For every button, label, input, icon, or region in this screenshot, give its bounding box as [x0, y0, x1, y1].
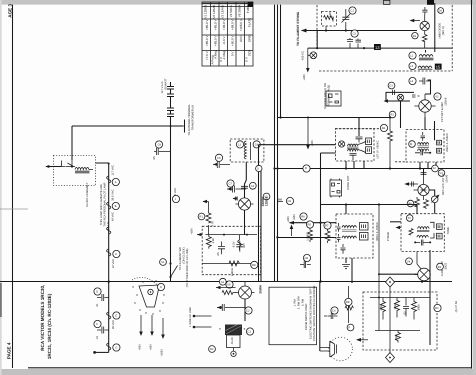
- svg-text:12: 12: [433, 167, 437, 170]
- code dot terminal box: [330, 180, 342, 196]
- svg-text:12AV6: 12AV6: [446, 174, 449, 182]
- svg-text:TERMINAL IN (B): TERMINAL IN (B): [328, 85, 331, 107]
- ref circle L1: [409, 52, 416, 59]
- bottom grey scan strip: [0, 369, 476, 375]
- ref circle on bus right: [345, 298, 352, 305]
- svg-text:R5: R5: [308, 224, 312, 227]
- node avc end: [389, 116, 391, 118]
- svg-text:+85V: +85V: [303, 74, 306, 81]
- AVC arrow stub: [307, 118, 309, 147]
- resistor R12 vertical: [206, 213, 211, 223]
- svg-text:L3: L3: [238, 144, 242, 147]
- AF line: [321, 204, 418, 206]
- dial drive bracket: [139, 285, 160, 307]
- ref circle C1A: [349, 7, 356, 14]
- arrow pin left: [216, 287, 236, 289]
- top feed vertical: [434, 3, 436, 52]
- resistor ext ant: [324, 16, 334, 20]
- node string start: [108, 163, 110, 165]
- table corner black square: [248, 2, 253, 7]
- svg-text:POSITION. SWITCH ROTATES CLOCK: POSITION. SWITCH ROTATES CLOCKWISE: [313, 285, 316, 341]
- T2 slug boxes: [437, 140, 442, 145]
- right page rule: [471, 0, 473, 369]
- heater V3: [107, 227, 111, 234]
- converter screen riser: [260, 169, 262, 282]
- filament feed wire: [302, 30, 418, 32]
- top open index tab: [384, 0, 390, 4]
- T3 pin wires: [346, 205, 352, 282]
- svg-text:35W4: 35W4: [259, 285, 263, 294]
- T1 tickler node: [339, 141, 345, 147]
- wire clock drop: [71, 126, 73, 160]
- T2 inner cap: [415, 150, 431, 155]
- grid loop wire: [386, 92, 414, 128]
- heater V1: [107, 176, 111, 183]
- svg-text:PAGE 4: PAGE 4: [6, 342, 11, 359]
- IF transformer T1 box: [336, 129, 375, 161]
- svg-text:.05: .05: [153, 156, 156, 160]
- feedback dashed box: [363, 292, 437, 350]
- svg-text:V5 35W4: V5 35W4: [238, 4, 242, 17]
- T1 bottom cap: [350, 153, 357, 160]
- resistor fb1: [381, 298, 386, 320]
- svg-text:A: A: [115, 181, 117, 184]
- T1 slug boxes: [366, 138, 372, 145]
- tube V5 35W4 rectifier: [239, 286, 252, 299]
- wire filament string top: [96, 163, 109, 352]
- node 379: [378, 297, 380, 299]
- svg-text:V1 12BE6: V1 12BE6: [204, 5, 208, 19]
- svg-text:1 MEG: 1 MEG: [307, 232, 310, 240]
- resistor 3.9K vertical: [206, 235, 211, 249]
- det diode load stub: [405, 182, 418, 187]
- svg-text:G: G: [115, 347, 117, 350]
- cap on bus pair: [277, 199, 283, 202]
- svg-text:TONE: TONE: [447, 227, 450, 235]
- ref circle C20: [246, 328, 253, 335]
- IF transformer T3 box: [336, 214, 373, 258]
- wire AC line down: [170, 97, 172, 109]
- T1 hook wires: [358, 142, 366, 153]
- svg-text:150K: 150K: [395, 334, 398, 341]
- long bus vertical 1: [274, 5, 276, 282]
- osc tap cap stub: [213, 161, 230, 168]
- voltage arrow 1: [140, 315, 142, 333]
- chassis ground ring: [231, 351, 236, 356]
- wire to ground: [233, 348, 235, 352]
- svg-text:+105.0 V: +105.0 V: [239, 18, 243, 31]
- svg-text:AGE 3: AGE 3: [7, 3, 12, 17]
- trimmer capacitor C1A: [342, 9, 349, 31]
- svg-text:C2: C2: [246, 310, 250, 313]
- node if feed: [276, 236, 278, 238]
- ref circle R4: [380, 124, 387, 131]
- tuner dashed boundary: [317, 5, 452, 71]
- ref circle R1: [412, 33, 418, 39]
- wire to coil: [66, 160, 75, 167]
- table row rules: [202, 7, 253, 51]
- ref circle C15: [286, 197, 293, 204]
- svg-text:390K: 390K: [418, 304, 421, 311]
- heater V2: [107, 202, 111, 209]
- svg-text:B: B: [115, 205, 117, 208]
- capacitor grid loop: [393, 90, 395, 95]
- svg-text:+85.0 V: +85.0 V: [205, 18, 209, 30]
- svg-text:.05: .05: [217, 252, 220, 256]
- svg-text:+85.0 V: +85.0 V: [214, 34, 218, 46]
- svg-text:47-1 B: 47-1 B: [107, 222, 110, 230]
- speaker dotted cone circle: [329, 337, 353, 361]
- svg-text:C3: C3: [389, 85, 393, 88]
- resistor RF vertical: [422, 35, 427, 49]
- grid cap V3: [421, 173, 427, 175]
- ref circle V2: [434, 93, 441, 100]
- oscillator coil L2: [418, 66, 432, 68]
- svg-text:C2: C2: [353, 33, 357, 36]
- svg-text:L1: L1: [410, 55, 414, 58]
- svg-text:3.9K: 3.9K: [212, 238, 215, 244]
- long bus vertical 3: [280, 5, 282, 118]
- left section: power entry, clock, filament string: [45, 78, 194, 357]
- T1 core lines: [347, 147, 359, 148]
- ref circle C9: [155, 141, 162, 148]
- IF transformer T2 box: [406, 130, 444, 162]
- svg-text:FROM SWITCH END:: FROM SWITCH END:: [305, 303, 308, 330]
- svg-text:+85.0 V: +85.0 V: [214, 18, 218, 30]
- T2 core lines: [418, 146, 430, 147]
- resistor fb4: [396, 331, 401, 343]
- svg-text:+85V: +85V: [311, 140, 314, 147]
- svg-text:60 WATT: 60 WATT: [165, 78, 168, 90]
- svg-text:36.5 VAC: 36.5 VAC: [112, 189, 115, 200]
- ref circle C5: [215, 154, 222, 161]
- wire vol to tubes: [417, 190, 435, 214]
- voltage arrow 2: [151, 315, 153, 333]
- resistor fb3: [412, 298, 417, 320]
- ref circle C7: [227, 180, 234, 187]
- AC side terminal stubs: [195, 316, 212, 327]
- T4 core lines: [417, 230, 429, 231]
- svg-text:R7: R7: [325, 225, 329, 228]
- ground T3: [342, 265, 350, 269]
- svg-text:R: R: [305, 167, 307, 170]
- svg-text:V4: V4: [407, 261, 411, 264]
- ref circle T4: [406, 215, 413, 222]
- svg-text:R8: R8: [252, 264, 256, 267]
- svg-text:3. RM: 3. RM: [302, 298, 305, 306]
- ref circle G: [113, 344, 120, 351]
- svg-text:C7: C7: [229, 183, 233, 186]
- resistor R4 vertical: [388, 131, 393, 142]
- bus B- horizontal full: [0, 281, 452, 283]
- ref circle F: [94, 320, 101, 327]
- dark left-edge blotch: [0, 283, 2, 317]
- ref circle D: [94, 288, 101, 295]
- T3 core lines: [342, 230, 357, 232]
- left grey scan sliver: [0, 0, 2, 375]
- resistor 1meg vertical: [308, 228, 313, 242]
- svg-text:2700: 2700: [394, 303, 397, 310]
- node bus joints: [273, 167, 275, 169]
- svg-text:V2 12BA6: V2 12BA6: [212, 5, 216, 19]
- ref circle R8: [251, 261, 258, 268]
- wire string bottom hook: [96, 351, 109, 353]
- ref circle J: [172, 195, 179, 202]
- wire osc to tube: [245, 162, 247, 198]
- ref circle C34: [438, 8, 444, 14]
- wire right rail: [429, 250, 431, 345]
- ref circle C21: [245, 307, 252, 314]
- feedback vertical wire: [389, 287, 391, 353]
- wire ext ant drop: [326, 17, 333, 31]
- svg-text:L2: L2: [410, 65, 414, 68]
- svg-text:+85V: +85V: [150, 344, 153, 351]
- arrow fb to speaker: [357, 339, 368, 341]
- wire AC line vertical: [170, 126, 172, 282]
- wire det out: [290, 222, 337, 224]
- capacitor C-line1 stub: [97, 294, 109, 301]
- T3 secondary coil: [342, 236, 356, 238]
- svg-text:+85V: +85V: [191, 228, 194, 235]
- svg-text:S: S: [257, 168, 259, 171]
- inner top rail: [370, 297, 430, 299]
- svg-text:R1: R1: [199, 216, 203, 219]
- ext antenna dashed box: [322, 12, 337, 27]
- ref circle C10: [388, 82, 395, 89]
- inner rail top: [206, 234, 258, 236]
- diode 1N60 envelope: [420, 21, 429, 30]
- ref circle near switch: [160, 259, 167, 266]
- svg-text:E: E: [115, 315, 117, 318]
- cap stub +105: [217, 304, 245, 311]
- svg-text:T2: T2: [408, 217, 412, 220]
- heater V6: [107, 343, 111, 350]
- svg-text:TO FILAMENT STRING: TO FILAMENT STRING: [296, 11, 300, 46]
- oscillator coil L3: [244, 141, 246, 159]
- dropping resistor feed: [203, 202, 209, 235]
- tube V1 12BE6 converter: [238, 198, 250, 210]
- oscillator dashed box: [230, 139, 264, 162]
- ref circle on bus: [303, 165, 310, 172]
- svg-text:ANT: ANT: [329, 11, 332, 17]
- voice coil chain: [347, 286, 349, 323]
- svg-text:R1: R1: [413, 35, 417, 38]
- capacitor .047 vertical: [236, 241, 243, 252]
- IF unit dashed top: [335, 128, 380, 130]
- svg-text:THE RCA PERSONAL PILOT LAMP: THE RCA PERSONAL PILOT LAMP: [104, 182, 107, 226]
- wire tube to box: [244, 210, 246, 235]
- svg-text:.047: .047: [243, 243, 246, 249]
- T2 tuning caps: [421, 132, 426, 141]
- AGC node x: [397, 94, 403, 100]
- +85V arrow down: [307, 48, 309, 69]
- ref circle R14: [434, 304, 441, 311]
- speaker symbol: [330, 341, 337, 357]
- resistor 1 MEG horizontal: [229, 261, 240, 266]
- svg-text:C6: C6: [251, 185, 255, 188]
- clock switch contact: [61, 161, 74, 167]
- wire avc corner into T1: [358, 118, 360, 128]
- T1 plate feed cap: [358, 118, 360, 137]
- tube V3 12AV6 det: [418, 184, 429, 195]
- wire det feed: [423, 169, 425, 176]
- svg-text:40-40: 40-40: [231, 337, 234, 344]
- svg-text:30 VAC: 30 VAC: [112, 320, 115, 329]
- output transformer T4 dashed box: [401, 214, 444, 252]
- svg-text:1ST I.F. 455KC: 1ST I.F. 455KC: [377, 140, 380, 158]
- cap .0033 stub: [300, 261, 311, 268]
- switch S1 on-off: [169, 262, 171, 264]
- ref circle V3: [438, 170, 445, 177]
- capacitor C-line2 stub: [97, 327, 109, 334]
- AC interlock plug P1 lower: [167, 108, 174, 126]
- svg-text:2ND I.F. 455KC: 2ND I.F. 455KC: [446, 133, 449, 152]
- svg-text:(A) 47 63: (A) 47 63: [455, 301, 458, 313]
- table column rules: [211, 2, 245, 66]
- wire rect cathode down: [244, 299, 246, 321]
- capacitor .05 vertical: [218, 242, 225, 255]
- ref circle C6: [249, 182, 256, 189]
- dial pulley: [148, 289, 153, 294]
- svg-text:12BA6: 12BA6: [445, 97, 448, 106]
- svg-text:C8: C8: [305, 257, 309, 260]
- svg-text:V5: V5: [227, 284, 231, 287]
- wire plate step: [425, 80, 431, 94]
- svg-text:50C5: 50C5: [445, 262, 448, 269]
- ref circle L2: [409, 62, 416, 69]
- ref circle on bus S: [256, 165, 262, 171]
- svg-text:R3: R3: [435, 307, 439, 310]
- tone cap wire: [415, 240, 430, 246]
- gang link small coil: [419, 78, 430, 85]
- svg-text:2. RM SPK: 2. RM SPK: [298, 296, 301, 310]
- svg-text:S2: S2: [221, 281, 225, 284]
- svg-text:PLATE: PLATE: [248, 18, 252, 27]
- ref circle C4: [253, 141, 260, 148]
- capacitor line bypass stub: [154, 148, 171, 155]
- ref circle R12: [198, 213, 205, 220]
- ref circle R10: [306, 221, 313, 228]
- grid drive line: [379, 273, 418, 275]
- wire converter plate to T1: [259, 144, 336, 146]
- T4 step wires: [430, 222, 434, 238]
- svg-text:48 VAC: 48 VAC: [112, 212, 115, 221]
- ref circle C14: [303, 254, 310, 261]
- svg-text:CODE DOT: CODE DOT: [347, 175, 350, 190]
- ref circle A: [112, 178, 119, 185]
- svg-text:60 C: 60 C: [239, 35, 243, 42]
- wire 379 vertical: [378, 205, 380, 331]
- svg-text:117 VAC: 117 VAC: [112, 165, 115, 176]
- svg-text:R8: R8: [346, 301, 350, 304]
- ref circle L4: [409, 77, 416, 84]
- diode arrow stub: [411, 20, 421, 22]
- ref circle V1: [263, 193, 270, 200]
- svg-text:4.7K: 4.7K: [211, 221, 214, 227]
- svg-text:+: +: [244, 327, 246, 331]
- ref circle L3: [236, 141, 243, 148]
- ref circle H: [157, 283, 164, 290]
- dial cord speckle: [132, 280, 164, 314]
- socket view box: [326, 91, 341, 106]
- heater V4: [107, 249, 111, 256]
- wire right of switch box: [319, 282, 321, 352]
- right grey scan strip: [473, 0, 476, 375]
- T3 tuning caps: [337, 223, 341, 242]
- node bus dots: [351, 281, 353, 283]
- inner bottom rail: [375, 330, 420, 332]
- det load resistor b: [424, 199, 429, 209]
- svg-text:.01: .01: [96, 335, 99, 339]
- svg-text:R4: R4: [382, 127, 386, 130]
- node det wire: [319, 222, 321, 224]
- svg-text:1RC31, 1RC34 (Ch. RC-1202E): 1RC31, 1RC34 (Ch. RC-1202E): [47, 293, 52, 359]
- svg-text:.02: .02: [404, 311, 407, 315]
- T3 slug boxes: [360, 223, 369, 231]
- antenna coil L1: [419, 55, 433, 57]
- resistor 470 vertical: [325, 229, 330, 243]
- wire into box left: [390, 221, 401, 223]
- T2 secondary coil: [418, 149, 429, 151]
- ref circle near 50C5: [437, 263, 444, 270]
- bottom right: audio output, speaker: [320, 205, 458, 363]
- svg-text:C5: C5: [217, 157, 221, 160]
- svg-text:270000: 270000: [387, 232, 390, 242]
- svg-text:SCR: SCR: [248, 49, 252, 56]
- tube voltage table (rotated): [202, 2, 253, 66]
- svg-text:C4: C4: [332, 310, 336, 313]
- ref circle B: [112, 202, 119, 209]
- AC interlock plug P1 upper: [167, 82, 174, 97]
- inner rail bottom: [202, 262, 257, 264]
- grid cap stub: [227, 186, 246, 193]
- node AC junction: [170, 125, 172, 127]
- svg-text:+105V: +105V: [161, 349, 164, 357]
- right section: IF amp, detector, audio: [256, 80, 451, 283]
- osc test node: [310, 52, 317, 59]
- heater V5: [107, 312, 111, 319]
- arrowhead filament feed: [301, 29, 307, 33]
- svg-text:+38.0 V: +38.0 V: [222, 18, 226, 30]
- svg-text:+7.0 V: +7.0 V: [205, 50, 209, 60]
- gang trimmer cap: [422, 7, 427, 15]
- node bus crossing: [108, 281, 110, 283]
- wire AF takeoff: [321, 153, 336, 282]
- T1 primary coil: [348, 144, 358, 146]
- T3 primary coil: [342, 226, 356, 228]
- cap cluster on plate line: [347, 38, 361, 48]
- svg-text:TUBE: TUBE: [246, 5, 250, 13]
- ref circle R6: [407, 200, 414, 207]
- bus B+ horizontal: [275, 168, 472, 170]
- svg-text:+85V: +85V: [287, 216, 290, 223]
- svg-text:C9: C9: [288, 200, 292, 203]
- voltage arrow 3: [162, 318, 164, 336]
- svg-text:R9: R9: [301, 216, 305, 219]
- svg-text:C1: C1: [351, 10, 355, 13]
- svg-text:1 SIDE AC LINE: 1 SIDE AC LINE: [189, 307, 192, 327]
- svg-text:CLOCK ASSEMBLY: CLOCK ASSEMBLY: [86, 182, 89, 207]
- cap fb: [403, 298, 409, 317]
- ref circle R3: [389, 111, 396, 118]
- T4 primary coil: [418, 227, 430, 229]
- converter plate riser: [258, 145, 260, 282]
- svg-text:P: P: [348, 327, 350, 330]
- wire IF feed: [278, 237, 337, 239]
- svg-text:L4: L4: [410, 80, 414, 83]
- svg-text:C1: C1: [248, 331, 252, 334]
- resistor tone: [409, 229, 413, 235]
